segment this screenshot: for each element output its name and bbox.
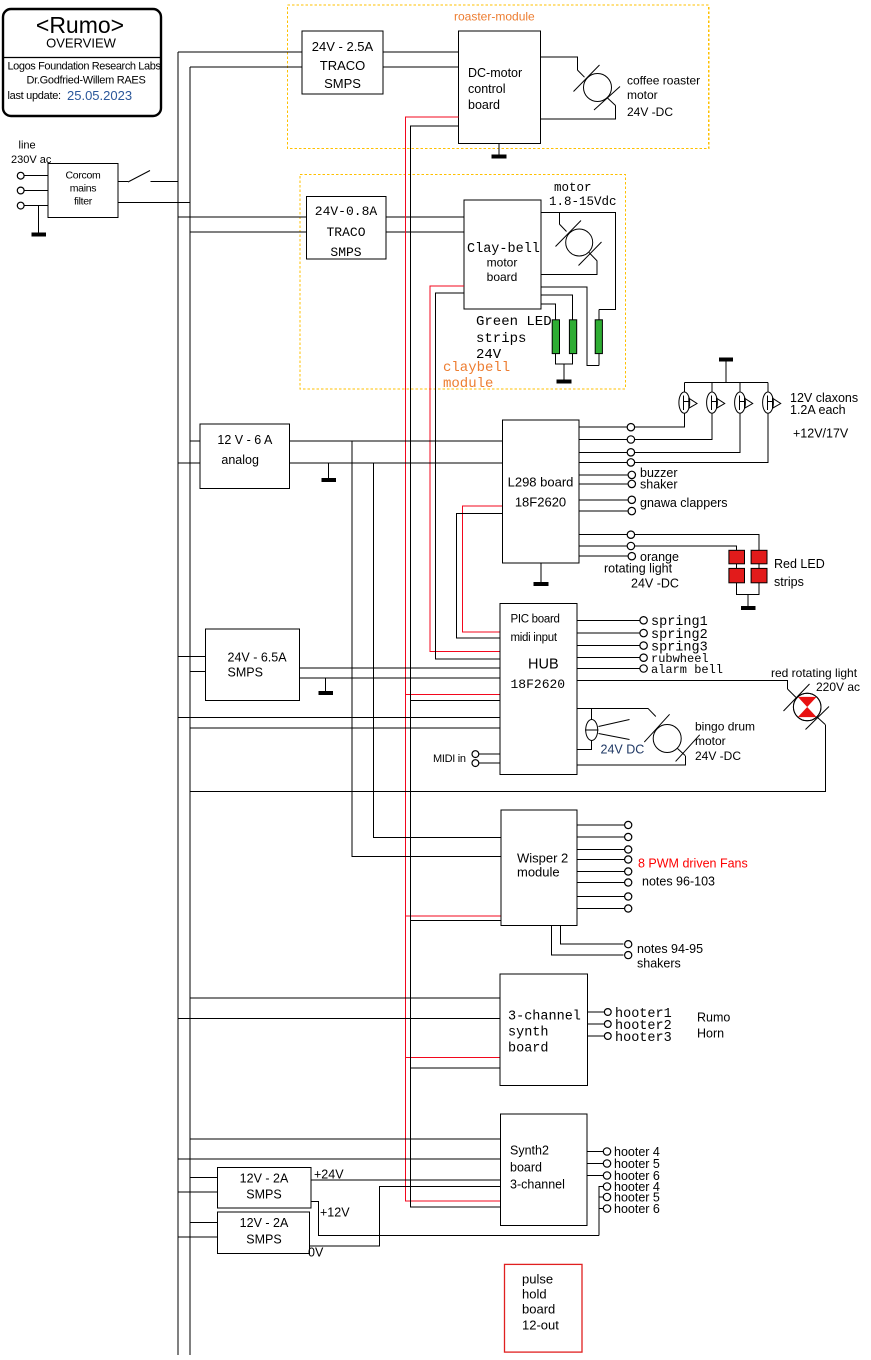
wire bus1 to HUB bbox=[178, 717, 500, 719]
svg-text:roaster-module: roaster-module bbox=[454, 10, 535, 24]
svg-text:220V ac: 220V ac bbox=[816, 680, 860, 694]
svg-text:MIDI in: MIDI in bbox=[433, 753, 466, 765]
wire analog to L298 pin2 bbox=[289, 462, 502, 464]
Green LED strips label bbox=[476, 314, 552, 363]
wire L298 out2 to claxon H2 bbox=[579, 413, 712, 439]
wire L298 gnawa out2 bbox=[579, 510, 628, 512]
wire bus1 vertical bbox=[177, 52, 179, 1355]
svg-text:shakers: shakers bbox=[637, 957, 681, 971]
wire 220V run to red rotating light bbox=[190, 725, 826, 792]
claxon H4 bbox=[763, 392, 781, 413]
terminal hooter4 bbox=[603, 1148, 610, 1155]
wire L298 orange light out bbox=[579, 555, 628, 557]
node 0V rail bbox=[308, 1186, 501, 1259]
svg-text:1.8-15Vdc: 1.8-15Vdc bbox=[549, 195, 617, 209]
svg-text:24V -DC: 24V -DC bbox=[695, 749, 741, 763]
node +24V rail bbox=[311, 1168, 501, 1182]
svg-text:SMPS: SMPS bbox=[228, 666, 263, 680]
svg-text:notes 96-103: notes 96-103 bbox=[642, 875, 715, 889]
svg-text:board: board bbox=[522, 1302, 555, 1317]
power supply U6 12V-2A SMPS B bbox=[217, 1212, 309, 1253]
wire motor M2 return bbox=[589, 253, 597, 262]
wire red trunk C L298 to HUB bbox=[463, 506, 503, 632]
wire synth hooter2 out bbox=[587, 1023, 604, 1025]
wire Synth2 hooter6 out bbox=[587, 1175, 603, 1177]
terminal red LED 1 bbox=[627, 531, 634, 538]
svg-text:HUB: HUB bbox=[528, 657, 559, 673]
svg-text:shaker: shaker bbox=[640, 478, 678, 492]
wire Clay-bell board LED2 feed bbox=[541, 295, 572, 320]
svg-text:coffee roaster: coffee roaster bbox=[627, 74, 700, 88]
motor M2 label bbox=[549, 181, 617, 209]
red LED square 2 bbox=[751, 550, 767, 564]
wire red trunk B Clay-bell to HUB bbox=[430, 286, 500, 651]
wire filter to bus2 bbox=[118, 202, 190, 204]
power bar claxon supply bbox=[719, 360, 733, 383]
wire HUB spring2 out bbox=[577, 632, 640, 634]
wire bus1 to analog supply bbox=[178, 462, 200, 464]
wire L298 to red LED col2 bbox=[579, 535, 759, 551]
DC-motor control board bbox=[458, 31, 540, 143]
terminal hooter1 bbox=[604, 1009, 611, 1016]
svg-text:24V -DC: 24V -DC bbox=[627, 105, 673, 119]
svg-text:strips: strips bbox=[476, 331, 526, 347]
wire Synth2 hooter4 out bbox=[587, 1151, 603, 1153]
svg-text:Horn: Horn bbox=[697, 1027, 724, 1041]
terminal out4 bbox=[627, 459, 634, 466]
claxons label bbox=[790, 391, 858, 441]
svg-text:gnawa clappers: gnawa clappers bbox=[640, 496, 728, 510]
wire black trunk A tap to synth board bbox=[410, 1067, 500, 1069]
claxon H2 bbox=[707, 392, 725, 413]
wire Wisper fan out1 bbox=[577, 824, 624, 826]
red LED square 1 bbox=[729, 550, 745, 564]
ground analog supply bbox=[322, 463, 337, 480]
switch S1 bbox=[118, 171, 178, 183]
svg-text:hooter 6: hooter 6 bbox=[614, 1202, 660, 1216]
svg-text:24V: 24V bbox=[476, 347, 502, 363]
wire bus2 to 12V SMPS B bbox=[190, 1222, 217, 1224]
3-channel synth board bbox=[500, 974, 587, 1085]
wire 24V SMPS to HUB pin2 bbox=[299, 677, 500, 679]
wire red trunk A tap to synth board bbox=[406, 1057, 501, 1059]
svg-text:12-out: 12-out bbox=[522, 1318, 559, 1333]
Green LED strip 1 bbox=[552, 320, 559, 354]
svg-text:8 PWM driven Fans: 8 PWM driven Fans bbox=[638, 857, 748, 871]
terminal orange light bbox=[628, 553, 635, 560]
svg-text:24V - 2.5A: 24V - 2.5A bbox=[312, 39, 374, 54]
svg-text:module: module bbox=[443, 376, 493, 392]
svg-text:SMPS: SMPS bbox=[330, 245, 361, 260]
svg-text:bingo drum: bingo drum bbox=[695, 720, 755, 734]
roaster-module frame bbox=[288, 5, 709, 149]
wire TRACO1 to DC-motor board pin2 bbox=[383, 66, 458, 68]
claybell module frame bbox=[300, 175, 625, 389]
wire black trunk C L298 to HUB bbox=[457, 514, 503, 639]
wire bus2 to 12V SMPS A bbox=[190, 1177, 217, 1179]
wire L298 out3 to claxon H3 bbox=[579, 413, 740, 452]
wire bus1 to 24V SMPS bbox=[178, 655, 205, 657]
svg-text:board: board bbox=[468, 98, 500, 112]
svg-text:rotating light: rotating light bbox=[604, 562, 673, 576]
svg-text:SMPS: SMPS bbox=[246, 1188, 281, 1202]
claxon H1 bbox=[679, 392, 697, 413]
svg-text:Green LED: Green LED bbox=[476, 314, 552, 330]
Corcom mains filter bbox=[48, 164, 118, 218]
wire L298 out4 to claxon H4 bbox=[579, 413, 768, 462]
ground DC-motor board bbox=[492, 144, 507, 157]
L298 board 18F2620 bbox=[503, 420, 580, 563]
terminal spring3 bbox=[640, 642, 647, 649]
wire bus1 to 12V SMPS A bbox=[178, 1191, 217, 1193]
wire Clay-bell board to motor M2 top bbox=[541, 213, 616, 310]
terminal fan8 bbox=[625, 905, 632, 912]
wire black trunk A tap to Wisper bbox=[410, 920, 501, 922]
wire L1 to filter bbox=[24, 175, 48, 177]
svg-text:board: board bbox=[510, 1161, 542, 1175]
wire bracket hooter set2 bbox=[599, 1187, 603, 1236]
red LED square 4 bbox=[751, 568, 767, 582]
wire L2 to filter bbox=[24, 190, 48, 192]
svg-text:+12V: +12V bbox=[320, 1206, 350, 1220]
wire black trunk B Clay-bell to HUB bbox=[436, 293, 501, 659]
svg-text:control: control bbox=[468, 82, 506, 96]
wire Clay-bell board LED3 feed bbox=[541, 287, 599, 366]
wire Wisper fan out7 bbox=[577, 896, 624, 898]
svg-text:filter: filter bbox=[74, 196, 93, 208]
motor M1 coffee roaster bbox=[574, 65, 621, 110]
svg-text:0V: 0V bbox=[308, 1246, 324, 1260]
motor M3 bingo drum bbox=[644, 714, 699, 761]
svg-text:<Rumo>: <Rumo> bbox=[36, 12, 124, 38]
wire black trunk A tap to HUB bbox=[410, 699, 500, 701]
power supply U4 24V-6.5A SMPS bbox=[205, 629, 299, 701]
wire motor M1 return bbox=[608, 98, 616, 106]
terminal fan3 bbox=[625, 846, 632, 853]
wire L298 out1 to claxon H1 bbox=[579, 413, 684, 427]
terminal fan2 bbox=[625, 833, 632, 840]
Green LED strip 3 bbox=[595, 320, 602, 354]
svg-text:Logos Foundation Research Labs: Logos Foundation Research Labs bbox=[7, 61, 161, 73]
terminal hooter6 bbox=[603, 1172, 610, 1179]
wire TRACO1 to DC-motor board pin1 bbox=[383, 51, 458, 53]
power supply U2 24V-0.8A TRACO SMPS bbox=[307, 197, 387, 261]
PIC board midi input HUB 18F2620 bbox=[500, 603, 577, 774]
wire L298 to red LED col1 bbox=[579, 546, 737, 550]
terminal hooter5b bbox=[603, 1193, 610, 1200]
terminal fan7 bbox=[625, 893, 632, 900]
motor M1 label bbox=[627, 74, 700, 120]
terminal MIDI 1 bbox=[472, 751, 479, 758]
wire 24V SMPS to HUB pin1 bbox=[299, 667, 500, 669]
terminal spring2 bbox=[640, 629, 647, 636]
svg-text:strips: strips bbox=[774, 575, 804, 589]
wire bus1 to synth board bbox=[178, 1017, 500, 1019]
wire bus1 to TRACO2 bbox=[178, 216, 307, 218]
svg-text:DC-motor: DC-motor bbox=[468, 66, 522, 80]
svg-text:last update:: last update: bbox=[8, 90, 62, 102]
wire bus2 to TRACO2 bbox=[190, 231, 307, 233]
terminal fan6 bbox=[625, 879, 632, 886]
wire claxon rail bbox=[684, 381, 768, 383]
ground mains PE bbox=[32, 206, 46, 235]
wire TRACO2 to Clay-bell board pin1 bbox=[386, 216, 464, 218]
wire Clay-bell board LED1 feed bbox=[541, 304, 556, 320]
claxon H3 bbox=[735, 392, 753, 413]
wire bus1 to 12V SMPS B bbox=[178, 1236, 217, 1238]
pulse hold board 12-out bbox=[505, 1264, 583, 1352]
ground 24V SMPS bbox=[319, 678, 334, 693]
wire red trunk A from DC-motor board bbox=[406, 117, 501, 1201]
wire bus2 to analog supply bbox=[190, 440, 200, 442]
svg-text:midi input: midi input bbox=[511, 632, 558, 644]
wire lamp return bbox=[577, 741, 592, 750]
terminal rubwheel bbox=[640, 654, 647, 661]
terminal fan4 bbox=[625, 856, 632, 863]
wire Wisper fan out4 bbox=[577, 859, 624, 861]
svg-text:12V - 2A: 12V - 2A bbox=[240, 1216, 289, 1230]
terminal hooter4b bbox=[603, 1183, 610, 1190]
wire black trunk A from DC-motor board bbox=[410, 126, 500, 1207]
wire Wisper fan out8 bbox=[577, 908, 624, 910]
svg-text:motor: motor bbox=[554, 181, 592, 195]
terminal red LED 2 bbox=[627, 542, 634, 549]
wire bus2 to synth board bbox=[190, 997, 500, 999]
wire claxon stubs top bbox=[684, 382, 768, 392]
wire DC-motor board to motor M1 top bbox=[540, 57, 577, 70]
svg-text:1.2A each: 1.2A each bbox=[790, 403, 846, 417]
svg-text:red rotating light: red rotating light bbox=[771, 666, 858, 680]
wire Wisper fan out5 bbox=[577, 871, 624, 873]
terminal shaker1 bbox=[625, 941, 632, 948]
terminal MIDI 2 bbox=[472, 760, 479, 767]
svg-text:24V-0.8A: 24V-0.8A bbox=[315, 204, 378, 219]
terminal fan1 bbox=[625, 821, 632, 828]
terminal fan5 bbox=[625, 868, 632, 875]
svg-text:motor: motor bbox=[695, 734, 726, 748]
svg-text:Corcom: Corcom bbox=[66, 170, 102, 182]
svg-text:board: board bbox=[508, 1042, 549, 1057]
wire bus2 to HUB bbox=[190, 727, 500, 729]
svg-text:L298 board: L298 board bbox=[508, 475, 574, 490]
svg-text:mains: mains bbox=[70, 183, 97, 195]
wire L298 gnawa out1 bbox=[579, 499, 628, 501]
title block bbox=[3, 9, 161, 116]
svg-text:12V - 2A: 12V - 2A bbox=[240, 1172, 289, 1186]
svg-text:notes 94-95: notes 94-95 bbox=[637, 942, 703, 956]
red rotating light label bbox=[771, 666, 860, 694]
wire TRACO2 to Clay-bell board pin2 bbox=[386, 231, 464, 233]
svg-text:3-channel: 3-channel bbox=[510, 1178, 565, 1192]
svg-text:25.05.2023: 25.05.2023 bbox=[67, 88, 132, 103]
svg-text:motor: motor bbox=[627, 88, 658, 102]
wire motor M3 return bbox=[678, 749, 686, 756]
svg-text:3-channel: 3-channel bbox=[508, 1010, 581, 1025]
wire Wisper fan out2 bbox=[577, 836, 624, 838]
svg-text:pulse: pulse bbox=[522, 1272, 553, 1287]
wire LED strips 1-2 commons bbox=[556, 354, 573, 364]
svg-text:SMPS: SMPS bbox=[246, 1233, 281, 1247]
svg-text:hold: hold bbox=[522, 1287, 547, 1302]
svg-text:alarm bell: alarm bell bbox=[651, 663, 723, 677]
wire HUB to red rotating light bbox=[577, 681, 788, 689]
wire Wisper shaker out2 bbox=[552, 925, 624, 955]
wire HUB to bingo lamp and motor bbox=[577, 707, 648, 709]
terminal hooter6b bbox=[603, 1205, 610, 1212]
node +12V rail bbox=[311, 1201, 599, 1235]
svg-text:Red LED: Red LED bbox=[774, 557, 825, 571]
terminal alarm bell bbox=[640, 665, 647, 672]
wire red rotating light return bbox=[817, 717, 826, 725]
svg-text:analog: analog bbox=[221, 453, 259, 467]
Clay-bell motor board bbox=[464, 200, 541, 309]
wire HUB spring3 out bbox=[577, 645, 640, 647]
wire bus1 to Synth2 bbox=[178, 1158, 501, 1160]
motor M2 clay-bell bbox=[556, 221, 602, 266]
wire LED strip3 top lead bbox=[598, 309, 600, 319]
power supply U1 24V-2.5A TRACO SMPS bbox=[302, 31, 383, 94]
wire analog branch 2 to Wisper bbox=[373, 463, 501, 837]
svg-text:Rumo: Rumo bbox=[697, 1011, 730, 1025]
svg-text:OVERVIEW: OVERVIEW bbox=[46, 36, 117, 51]
svg-text:PIC board: PIC board bbox=[511, 614, 560, 626]
terminal gnawa1 bbox=[628, 496, 635, 503]
terminal shaker2 bbox=[625, 952, 632, 959]
svg-text:+12V/17V: +12V/17V bbox=[793, 427, 849, 441]
svg-text:TRACO: TRACO bbox=[326, 225, 365, 240]
svg-text:line: line bbox=[19, 140, 36, 152]
wire LED strip3 bottom lead bbox=[598, 354, 600, 366]
terminal L1 bbox=[17, 172, 24, 179]
terminal out3 bbox=[627, 449, 634, 456]
wire Synth2 hooter5 out bbox=[587, 1163, 603, 1165]
Green LED strip 2 bbox=[569, 320, 576, 354]
terminal hooter3 bbox=[604, 1033, 611, 1040]
wire HUB rubwheel out bbox=[577, 657, 640, 659]
wire MIDI to HUB bbox=[479, 754, 500, 763]
orange rotating light label bbox=[604, 550, 679, 591]
wire synth hooter3 out bbox=[587, 1035, 604, 1037]
Rumo Horn label bbox=[697, 1011, 730, 1041]
wire red LED commons bbox=[737, 564, 760, 595]
svg-text:+24V: +24V bbox=[314, 1168, 344, 1182]
terminal L2 bbox=[17, 187, 24, 194]
Wisper 2 module bbox=[501, 810, 577, 925]
terminal hooter2 bbox=[604, 1021, 611, 1028]
lamp 24V DC bbox=[585, 708, 630, 740]
terminal buzzer bbox=[628, 471, 635, 478]
wire red trunk A tap to Wisper bbox=[406, 915, 502, 917]
wire bus2 to TRACO1 bbox=[190, 66, 302, 68]
terminal hooter5 bbox=[603, 1160, 610, 1167]
svg-text:hooter3: hooter3 bbox=[615, 1031, 672, 1046]
svg-text:24V -DC: 24V -DC bbox=[631, 577, 679, 591]
node line 230V ac label bbox=[11, 140, 52, 167]
ground L298 bbox=[534, 563, 549, 584]
svg-text:module: module bbox=[517, 865, 560, 880]
wire HUB alarm bell out bbox=[577, 668, 640, 670]
claybell module label bbox=[443, 360, 510, 392]
svg-text:SMPS: SMPS bbox=[324, 76, 361, 91]
wire analog to L298 pin1 bbox=[289, 440, 502, 442]
wire Wisper shaker out1 bbox=[560, 925, 623, 944]
bingo drum motor label bbox=[695, 720, 755, 764]
Synth2 board 3-channel bbox=[501, 1114, 588, 1226]
svg-text:TRACO: TRACO bbox=[320, 58, 366, 73]
terminal PE bbox=[17, 202, 24, 209]
terminal out1 bbox=[627, 424, 634, 431]
svg-text:Dr.Godfried-Willem RAES: Dr.Godfried-Willem RAES bbox=[26, 75, 145, 87]
wire L298 shaker out bbox=[579, 483, 628, 485]
svg-text:Synth2: Synth2 bbox=[510, 1144, 549, 1158]
svg-text:24V - 6.5A: 24V - 6.5A bbox=[228, 651, 288, 665]
wire Wisper fan out3 bbox=[577, 849, 624, 851]
ground red LED strips bbox=[741, 594, 756, 607]
wire bus2 to Synth2 bbox=[190, 1138, 501, 1140]
wire PE bbox=[24, 205, 48, 207]
svg-text:18F2620: 18F2620 bbox=[515, 495, 566, 510]
power supply U5 12V-2A SMPS A bbox=[217, 1167, 311, 1208]
wire bus2 to 24V SMPS bbox=[190, 671, 205, 673]
terminal gnawa2 bbox=[628, 507, 635, 514]
red LED square 3 bbox=[729, 568, 745, 582]
terminal shaker bbox=[628, 480, 635, 487]
svg-text:board: board bbox=[487, 270, 518, 284]
terminal spring1 bbox=[640, 617, 647, 624]
wire bus1 to TRACO1 bbox=[178, 51, 302, 53]
svg-text:18F2620: 18F2620 bbox=[511, 677, 566, 692]
wire HUB spring1 out bbox=[577, 619, 640, 621]
notes 94-95 shakers label bbox=[637, 942, 703, 971]
power supply U3 12V-6A analog bbox=[200, 424, 289, 488]
ground Green LED strips bbox=[557, 364, 572, 381]
svg-text:Wisper 2: Wisper 2 bbox=[517, 851, 568, 866]
wire synth hooter1 out bbox=[587, 1011, 604, 1013]
terminal out2 bbox=[627, 436, 634, 443]
svg-text:synth: synth bbox=[508, 1026, 549, 1041]
svg-text:motor: motor bbox=[487, 256, 518, 270]
svg-text:24V DC: 24V DC bbox=[601, 743, 645, 757]
wire red trunk A tap to HUB bbox=[406, 693, 501, 695]
wire analog branch 1 to Wisper bbox=[352, 441, 501, 857]
red rotating light lamp bbox=[784, 684, 830, 730]
Red LED strips label bbox=[774, 557, 825, 589]
wire motor M2 branch bbox=[558, 213, 560, 225]
wire bus2 vertical bbox=[189, 67, 191, 1355]
wire L298 buzzer out bbox=[579, 474, 628, 476]
svg-text:12 V - 6 A: 12 V - 6 A bbox=[217, 433, 273, 447]
svg-text:230V ac: 230V ac bbox=[11, 154, 52, 166]
wire Wisper fan out6 bbox=[577, 882, 624, 884]
